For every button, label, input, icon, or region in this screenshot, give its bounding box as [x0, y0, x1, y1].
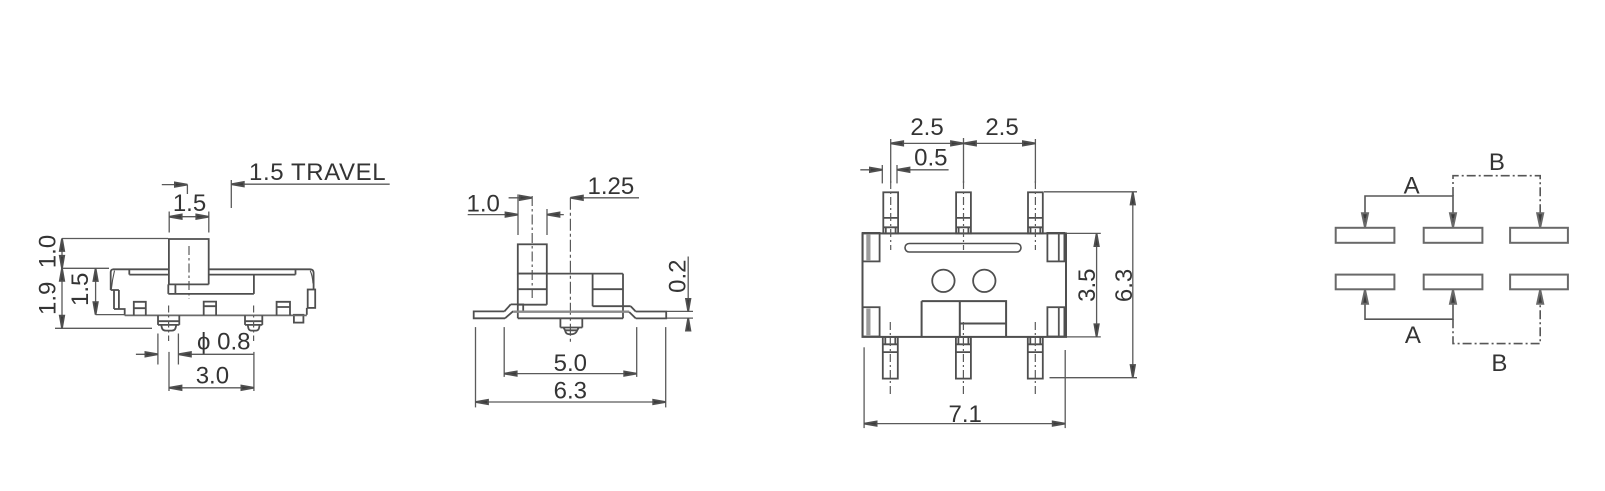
- svg-text:2.5: 2.5: [985, 114, 1018, 141]
- left side tab: [111, 290, 125, 315]
- bottom tab 1: [134, 302, 146, 315]
- svg-text:6.3: 6.3: [554, 378, 587, 405]
- body top-left corner: [111, 269, 113, 290]
- dimension 0.2: [667, 257, 693, 332]
- top strip line: [129, 269, 295, 274]
- contact pad 4: [1336, 275, 1395, 290]
- pin 3 top: [1028, 181, 1043, 250]
- pin 6 bottom: [1028, 322, 1043, 396]
- wire B top dash-dot: [1453, 176, 1540, 220]
- knob: [169, 239, 209, 284]
- svg-text:0.5: 0.5: [914, 144, 947, 171]
- actuator window: [922, 301, 1007, 336]
- knob centerline: [531, 196, 533, 298]
- svg-text:1.9: 1.9: [35, 282, 62, 315]
- svg-text:1.0: 1.0: [35, 235, 62, 268]
- contact pad 1: [1336, 228, 1395, 243]
- pin 2 top: [956, 181, 971, 250]
- VIEW4 circuit function diagram: [1336, 149, 1568, 377]
- slot: [905, 244, 1021, 253]
- svg-text:6.3: 6.3: [1111, 269, 1138, 302]
- knob centerline: [188, 246, 190, 299]
- dimension 3.0: [169, 352, 254, 391]
- foot 2 centerline: [253, 306, 255, 342]
- svg-text:ϕ 0.8: ϕ 0.8: [197, 329, 250, 356]
- VIEW2 end elevation of slide switch: [467, 173, 694, 407]
- svg-text:2.5: 2.5: [910, 114, 943, 141]
- body top line: [113, 268, 311, 270]
- dimension stack 1.0 / 1.9 left: [55, 239, 168, 329]
- wire A bottom: [1365, 299, 1453, 319]
- dimension 5.0: [504, 327, 637, 377]
- foot 1 centerline: [168, 306, 170, 342]
- dimension 0.5 pin width: [860, 165, 948, 183]
- body outline: [863, 233, 1067, 337]
- pin 1 top: [883, 181, 898, 250]
- corner sliver left: [111, 271, 114, 290]
- travel direction mark: [162, 185, 188, 194]
- dimension 1.25: [509, 197, 639, 199]
- dimension 2.5 pitch a: [891, 138, 1036, 183]
- dimension 1.5 body height: [96, 268, 125, 314]
- svg-text:5.0: 5.0: [554, 350, 587, 377]
- contact pad 5: [1424, 275, 1483, 290]
- hole left: [932, 270, 954, 292]
- right side tab: [308, 290, 316, 308]
- svg-text:B: B: [1489, 149, 1505, 176]
- knob: [518, 244, 547, 273]
- pin 4 bottom: [883, 322, 898, 396]
- slider plate right edge: [253, 275, 255, 294]
- svg-text:1.5: 1.5: [173, 190, 206, 217]
- hole right: [973, 270, 995, 292]
- svg-text:3.0: 3.0: [196, 362, 229, 389]
- body bottom line: [125, 314, 307, 316]
- svg-text:A: A: [1405, 322, 1421, 349]
- dimension 1.5 knob width: [169, 212, 209, 233]
- bracket left bend: [504, 304, 513, 318]
- pad top-left: [863, 233, 880, 262]
- bracket left wing: [474, 311, 505, 318]
- corner sliver right: [310, 271, 313, 284]
- bracket under-body band: [513, 311, 629, 313]
- wire B bottom dash-dot: [1453, 297, 1540, 344]
- VIEW3 bottom plan of slide switch: [860, 114, 1138, 428]
- dimension 2.5 pitch b: [964, 142, 1036, 144]
- pad bottom-left: [863, 307, 880, 336]
- contact pad 2: [1424, 228, 1483, 243]
- bracket under-body step: [511, 304, 524, 311]
- bottom tab 2: [204, 302, 216, 316]
- svg-text:1.5: 1.5: [67, 273, 94, 306]
- dimension 6.3: [1044, 192, 1137, 378]
- dimension dia 0.8: [136, 334, 254, 365]
- bracket right wing: [636, 312, 667, 319]
- body top line: [518, 273, 623, 275]
- svg-text:1.5 TRAVEL: 1.5 TRAVEL: [249, 159, 386, 186]
- foot 2: [245, 315, 262, 330]
- wire A top: [1365, 196, 1453, 218]
- body left cell: [518, 274, 547, 319]
- pad bottom-right: [1047, 307, 1064, 336]
- dimension 7.1: [864, 347, 1065, 428]
- pin 5 bottom: [956, 322, 971, 396]
- bottom tab 3: [277, 302, 290, 315]
- bottom-right small foot: [294, 315, 304, 323]
- dimension 6.3: [476, 327, 666, 407]
- VIEW1 side elevation of slide switch: [35, 159, 390, 391]
- center foot: [560, 318, 582, 334]
- svg-text:B: B: [1491, 350, 1507, 377]
- bracket seat line: [518, 317, 623, 319]
- svg-text:0.2: 0.2: [664, 260, 691, 293]
- body top-right corner: [311, 269, 314, 289]
- body right cell: [593, 274, 631, 319]
- pad top-right: [1047, 233, 1064, 262]
- body right lower edge: [306, 308, 308, 315]
- bracket right bend: [629, 306, 636, 318]
- svg-text:1.25: 1.25: [588, 173, 635, 200]
- foot 1: [158, 315, 179, 330]
- contact pad 6: [1510, 275, 1568, 290]
- dimension 3.5: [1067, 233, 1101, 337]
- knob flange: [168, 284, 254, 294]
- contact pad 3: [1510, 228, 1568, 243]
- svg-text:1.0: 1.0: [467, 191, 500, 218]
- body centerline: [569, 198, 571, 344]
- travel leader line: [231, 180, 389, 208]
- dimension 1.0 knob width: [468, 194, 564, 235]
